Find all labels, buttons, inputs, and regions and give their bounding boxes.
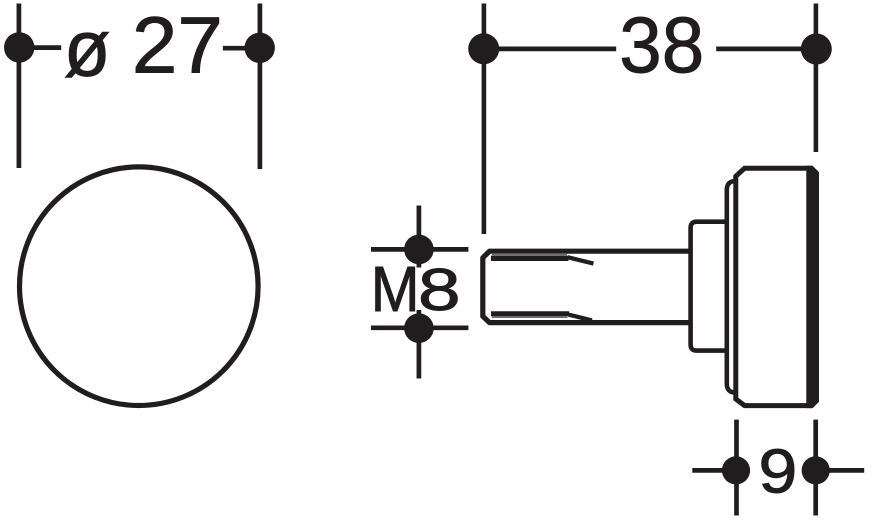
dim 38: right terminator dot [801, 34, 832, 65]
thread runout diagonal bottom [569, 315, 593, 321]
dim M8: bottom cross vertical [417, 310, 422, 379]
dim 38: right extension line [814, 4, 819, 153]
svg-text:8: 8 [418, 257, 461, 323]
dim M8: top cross vertical [417, 206, 422, 268]
side view: threaded stud outline with chamfered tip [483, 251, 689, 322]
svg-text:9: 9 [758, 437, 797, 506]
dim 38: left terminator dot [468, 33, 499, 64]
dim 38: dimension line left segment [484, 47, 617, 52]
knob head (side) [736, 168, 817, 405]
dim 9: left terminator dot [722, 456, 750, 484]
dim M8: top cross horizontal [371, 247, 468, 252]
thread gap seam bottom (gray) [492, 316, 568, 318]
dim 9: right extension line [813, 420, 818, 516]
svg-text:ø: ø [64, 3, 111, 93]
dim 9: left extension line [734, 420, 739, 516]
dim 9: dimension line right stub [829, 468, 864, 473]
thread root line top [491, 256, 569, 261]
dim 38: dimension line right segment [716, 47, 816, 52]
thread root line bottom [491, 311, 569, 316]
dim ø27: right terminator dot [245, 33, 275, 63]
dim ø27: dimension line left stub [19, 45, 61, 50]
thread runout diagonal top [568, 257, 594, 263]
dim ø27: left extension line [17, 4, 22, 169]
dim ø27: dimension line right stub [223, 46, 260, 51]
knob head front face inner edge (thick band) [806, 166, 819, 408]
dim 38: left extension line [482, 4, 487, 235]
dim M8: bottom cross horizontal [371, 325, 468, 330]
dim 9: right terminator dot [802, 456, 830, 484]
dim 9: dimension line left stub [692, 468, 723, 473]
svg-text:38: 38 [619, 2, 704, 89]
front view: knob face circle [20, 167, 259, 406]
dim M8: top terminator dot [404, 235, 434, 265]
dim ø27: right extension line [258, 4, 263, 170]
collar flange [691, 222, 737, 351]
svg-text:27: 27 [132, 2, 223, 91]
thread gap seam top (gray) [492, 254, 567, 256]
intermediate disc [727, 181, 780, 393]
svg-text:M: M [371, 254, 420, 325]
dim ø27: left terminator dot [4, 32, 34, 62]
dim M8: bottom terminator dot [404, 313, 434, 343]
